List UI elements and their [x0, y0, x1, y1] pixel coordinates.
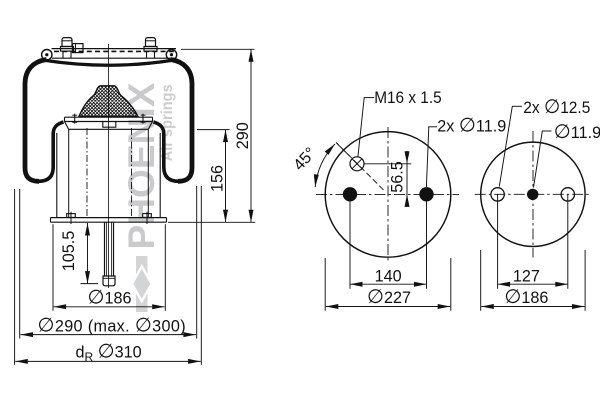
svg-text:56.5: 56.5 [389, 161, 407, 193]
top view centerline vertical [387, 127, 389, 261]
bottom view circle [481, 142, 585, 246]
top bead plate [52, 49, 177, 59]
svg-text:Air springs: Air springs [159, 84, 176, 161]
dimension diameter 186 [53, 224, 165, 311]
watermark PHOENIX Air springs logo [121, 82, 176, 312]
svg-text:290: 290 [234, 122, 252, 149]
dimension diameter 186 bottom [481, 250, 585, 311]
piston base flange [51, 218, 167, 223]
top view centerline horizontal [316, 193, 459, 195]
svg-text:∅227: ∅227 [367, 286, 411, 308]
svg-text:∅11.9: ∅11.9 [554, 121, 600, 143]
dimension 140 [350, 202, 427, 289]
svg-text:156: 156 [209, 165, 227, 192]
bellows outline [25, 60, 192, 182]
svg-text:2x ∅11.9: 2x ∅11.9 [437, 115, 506, 137]
45 degree line [336, 142, 384, 190]
bottom view center hole [527, 189, 538, 200]
dimension diameter 227 [325, 258, 451, 311]
bottom view hole right [561, 188, 574, 201]
dimension 56.5 [364, 151, 411, 207]
45 degree arc dimension [290, 144, 335, 187]
rubber bumper [0, 84, 208, 118]
bead roll right [166, 50, 176, 60]
svg-text:∅290 (max. ∅300): ∅290 (max. ∅300) [38, 314, 186, 336]
stud bolt right [144, 38, 157, 59]
bottom view centerline horizontal [475, 193, 592, 195]
svg-text:105.5: 105.5 [60, 231, 78, 272]
piston body [57, 122, 160, 218]
svg-text:M16 x 1.5: M16 x 1.5 [374, 89, 442, 107]
plate pin right [141, 114, 146, 124]
left view centerline [108, 44, 110, 288]
dimension diameter 290 max 300 [15, 186, 202, 365]
label M16 x 1.5 [358, 89, 442, 157]
bottom view hole left [491, 188, 504, 201]
piston internal line right [131, 128, 133, 217]
label 2x diameter 11.9 top view [426, 115, 506, 187]
svg-text:2x ∅12.5: 2x ∅12.5 [523, 96, 590, 118]
bottom view centerline vertical [532, 131, 534, 258]
top view hole left [343, 187, 357, 201]
bumper boss [103, 121, 116, 127]
bottom stud M16 [103, 222, 115, 286]
piston internal line left [86, 128, 88, 217]
svg-text:127: 127 [513, 268, 540, 286]
dimension 156 [209, 130, 228, 223]
dimension dR diameter 310 [15, 340, 200, 364]
dimension 290 [168, 49, 255, 222]
bead roll left [42, 50, 52, 60]
dimension 105.5 [60, 223, 98, 284]
clamp bolt right [143, 212, 152, 224]
plate pin left [72, 114, 77, 124]
label diameter 11.9 bottom view [534, 121, 600, 188]
M16 air fitting [350, 157, 364, 171]
svg-text:140: 140 [375, 268, 402, 286]
top view circle [325, 132, 451, 258]
svg-text:∅186: ∅186 [87, 286, 131, 308]
top view hole right [419, 187, 433, 201]
svg-text:∅186: ∅186 [504, 286, 548, 308]
label 2x diameter 12.5 [499, 96, 590, 186]
clamp bolt left [67, 212, 76, 224]
air fitting block [73, 44, 84, 53]
stud bolt left [61, 38, 74, 59]
bumper plate [65, 117, 153, 121]
dimension 127 [498, 194, 568, 288]
